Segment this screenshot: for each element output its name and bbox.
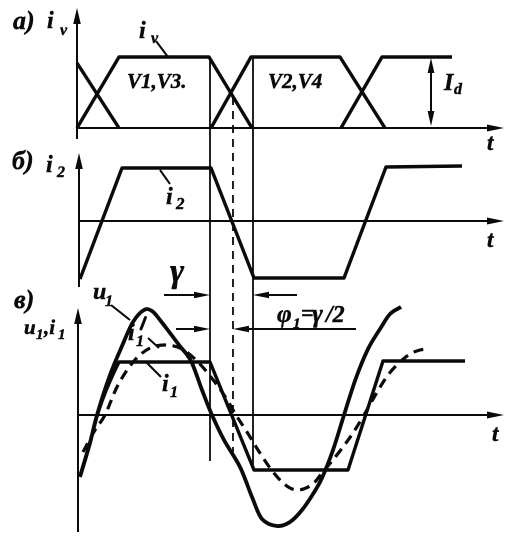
curve i1' dashed fundamental bbox=[83, 345, 428, 490]
vertical ref line 1 (x=210) bbox=[209, 57, 211, 461]
axis Y panel a bbox=[76, 19, 78, 139]
leader i1 bbox=[147, 363, 161, 377]
svg-text:i: i bbox=[47, 8, 54, 34]
dimension gamma right arrow bbox=[260, 294, 297, 296]
vertical dashed ref line (x=233) bbox=[232, 97, 234, 452]
svg-text:t: t bbox=[492, 421, 499, 446]
svg-text:d: d bbox=[454, 81, 463, 98]
svg-text:γ: γ bbox=[312, 299, 323, 328]
svg-text:2: 2 bbox=[56, 164, 65, 181]
svg-text:2: 2 bbox=[175, 194, 185, 213]
axis Y panel v bbox=[77, 319, 79, 532]
svg-text:V2,V4: V2,V4 bbox=[268, 69, 322, 93]
wire i2 waveform bbox=[80, 166, 462, 279]
curve u1 sine bbox=[80, 307, 401, 526]
wire trapezoid V2,V4 bbox=[211, 57, 385, 128]
svg-text:i: i bbox=[128, 320, 135, 346]
svg-text:1: 1 bbox=[170, 384, 178, 401]
axis T panel b bbox=[79, 220, 495, 222]
svg-text:a): a) bbox=[13, 6, 35, 35]
arrow Id bbox=[428, 58, 435, 126]
svg-text:φ: φ bbox=[277, 301, 292, 328]
svg-text:в): в) bbox=[14, 285, 34, 314]
dimension gamma left arrow bbox=[164, 294, 203, 296]
axis T panel v bbox=[78, 414, 495, 416]
svg-text:i: i bbox=[166, 184, 173, 210]
svg-text:i: i bbox=[162, 371, 169, 397]
wire i1 trapezoid bbox=[80, 361, 465, 476]
svg-text:t: t bbox=[487, 130, 494, 155]
svg-text:v: v bbox=[60, 22, 68, 39]
dimension phi1 right arrow bbox=[240, 328, 356, 330]
leader i1' bbox=[148, 338, 159, 348]
svg-text:i: i bbox=[46, 152, 53, 178]
leader iv bbox=[156, 41, 168, 57]
svg-text:/2: /2 bbox=[324, 302, 345, 328]
svg-text:i: i bbox=[139, 18, 146, 44]
svg-text:γ: γ bbox=[170, 253, 185, 290]
leader u1 bbox=[111, 305, 130, 320]
svg-text:,i: ,i bbox=[43, 315, 55, 339]
axis T panel a bbox=[77, 127, 495, 129]
svg-text:б): б) bbox=[12, 146, 34, 175]
leader i2 bbox=[160, 170, 170, 184]
wire trapezoid 3 bbox=[341, 57, 452, 128]
svg-text:1: 1 bbox=[58, 327, 66, 343]
dimension phi1 left arrow bbox=[176, 328, 203, 330]
vertical ref line 2 (x=253) bbox=[252, 57, 254, 470]
svg-text:t: t bbox=[487, 227, 494, 252]
svg-text:1: 1 bbox=[36, 327, 44, 343]
svg-text:u: u bbox=[24, 315, 36, 339]
wire trapezoid V1,V3 bbox=[77, 57, 252, 128]
svg-text:1: 1 bbox=[136, 333, 144, 350]
svg-text:1: 1 bbox=[105, 293, 113, 310]
svg-text:V1,V3.: V1,V3. bbox=[127, 69, 187, 93]
axis Y panel b bbox=[78, 164, 80, 287]
wire falling edge V2,V4 previous pulse bbox=[77, 63, 119, 128]
